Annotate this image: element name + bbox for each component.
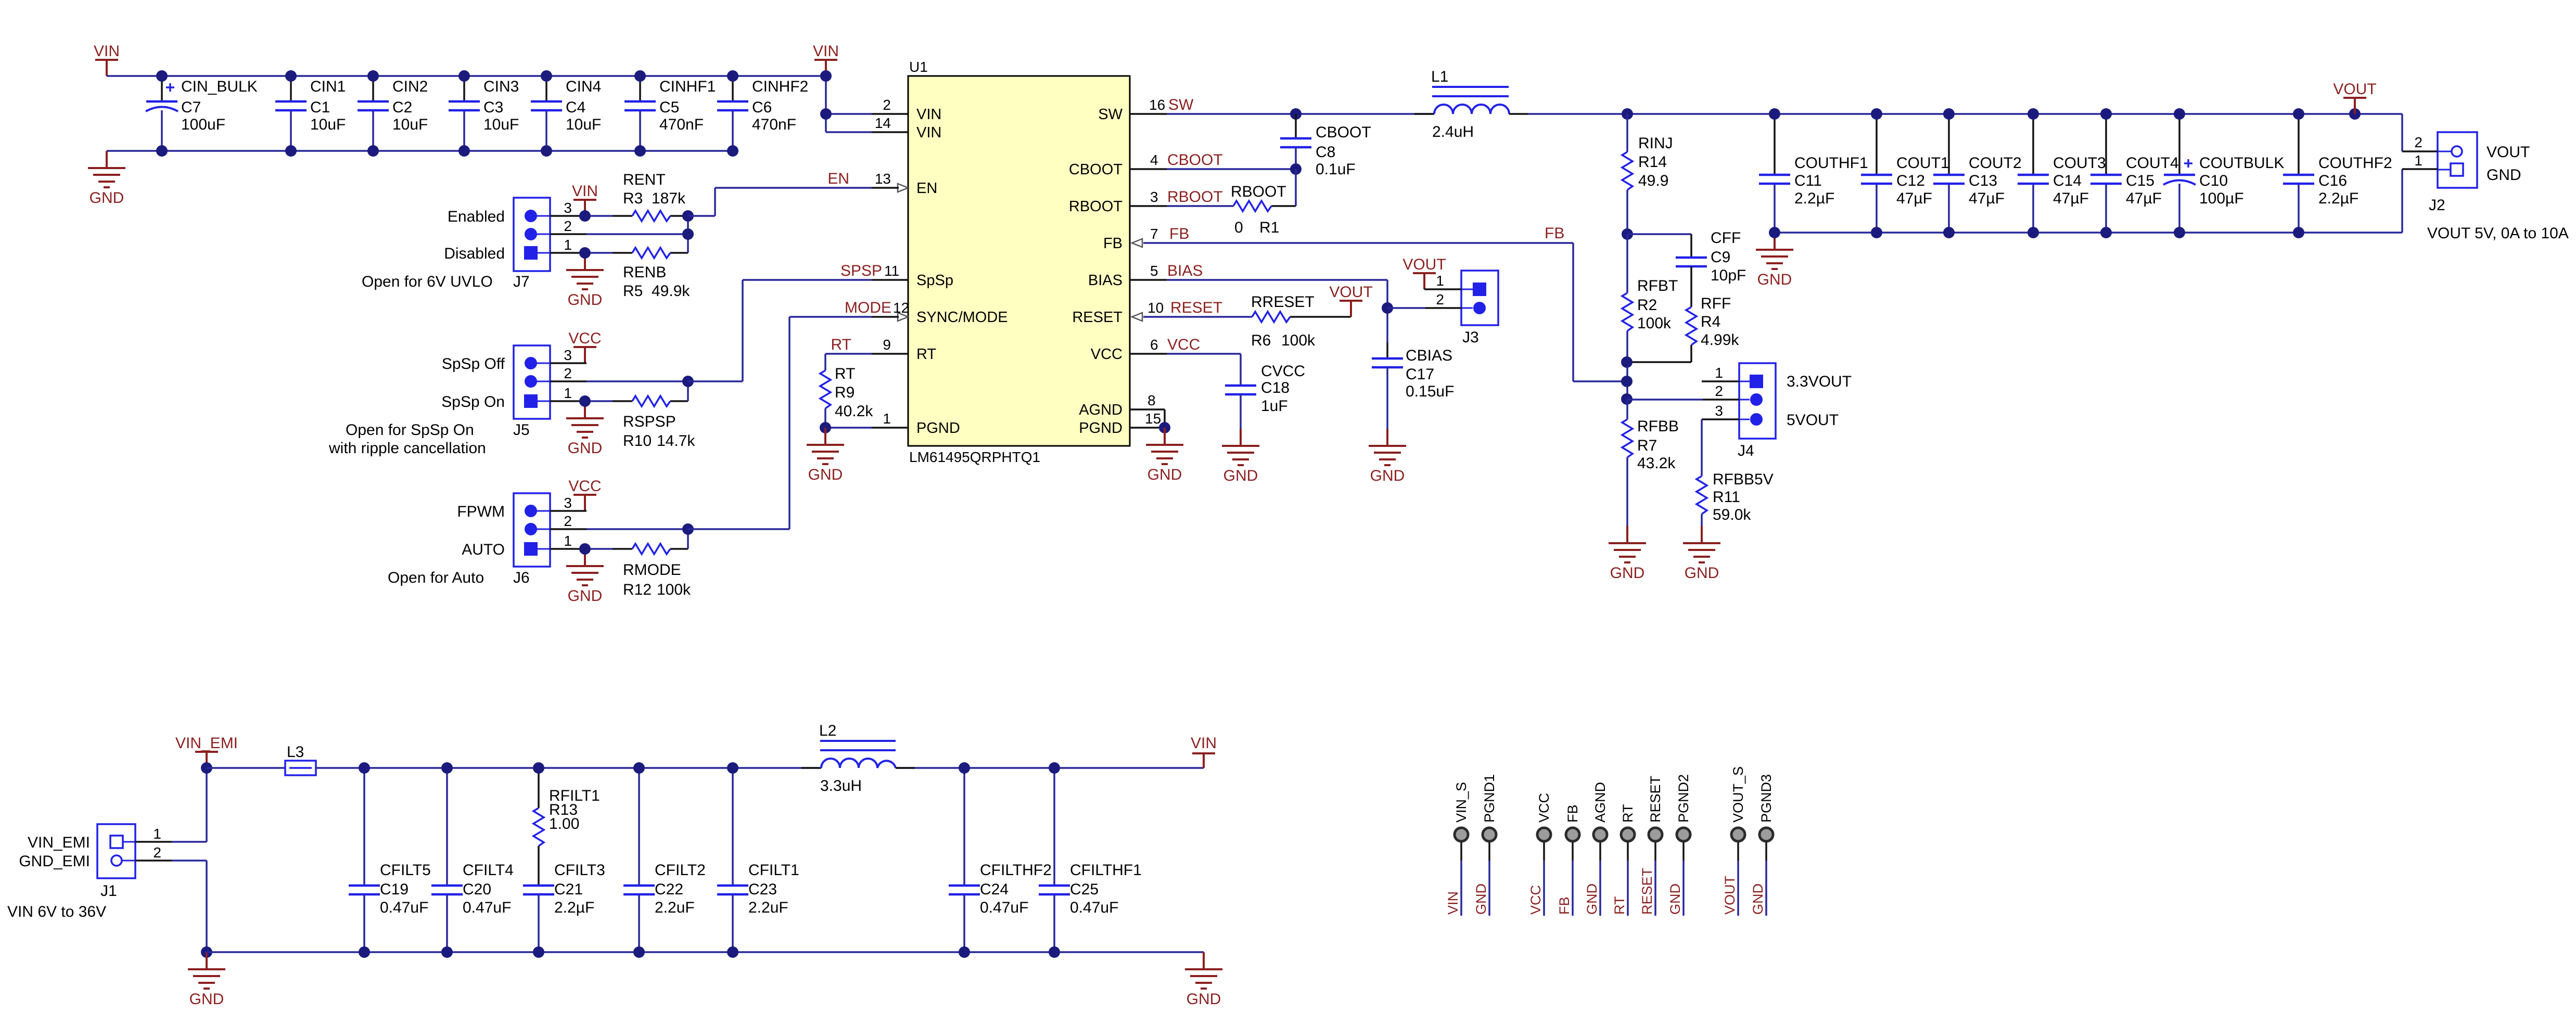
power flag VIN (EMI filter output) xyxy=(1191,735,1217,768)
svg-text:VIN 6V to 36V: VIN 6V to 36V xyxy=(7,903,106,920)
svg-text:C12: C12 xyxy=(1896,172,1925,189)
svg-text:VIN: VIN xyxy=(813,43,839,60)
svg-text:C7: C7 xyxy=(181,99,201,116)
test point VOUT_S (net VOUT) xyxy=(1722,766,1746,916)
connector J1 (VIN input) xyxy=(7,824,161,920)
ground GND (J6 pin1) xyxy=(566,549,604,585)
svg-text:RBOOT: RBOOT xyxy=(1167,188,1223,206)
svg-text:AGND: AGND xyxy=(1079,402,1123,418)
svg-text:VIN_EMI: VIN_EMI xyxy=(175,735,238,752)
wire: EN net from divider to U1 pin 13 xyxy=(682,188,899,253)
svg-text:1: 1 xyxy=(883,411,891,427)
svg-text:C21: C21 xyxy=(554,881,583,898)
svg-text:3: 3 xyxy=(564,347,572,363)
svg-text:8: 8 xyxy=(1147,392,1156,408)
capacitor C4 CIN4 10uF xyxy=(531,70,601,157)
svg-text:COUT2: COUT2 xyxy=(1969,155,2022,172)
svg-text:VCC: VCC xyxy=(1091,346,1123,363)
connector J7 (Enabled/Disabled jumper) xyxy=(362,198,572,290)
test point VIN_S (net VIN) xyxy=(1445,782,1469,916)
svg-text:GND: GND xyxy=(568,440,603,457)
svg-text:EN: EN xyxy=(916,180,937,197)
svg-text:R4: R4 xyxy=(1701,313,1720,330)
svg-text:GND: GND xyxy=(1370,467,1405,484)
capacitor C9 CFF 10pF xyxy=(1627,229,1746,307)
svg-text:3: 3 xyxy=(1150,189,1158,205)
svg-text:CBIAS: CBIAS xyxy=(1406,347,1452,364)
svg-text:2.2µF: 2.2µF xyxy=(2318,190,2358,207)
U1 pin 7 FB input arrow xyxy=(1132,239,1142,247)
svg-text:C23: C23 xyxy=(748,881,777,898)
svg-text:C24: C24 xyxy=(980,881,1009,898)
power flag VCC (J6 pin3) xyxy=(573,495,596,511)
wire: MODE net to U1 pin 12 xyxy=(682,317,899,549)
svg-text:VCC: VCC xyxy=(1536,793,1552,823)
svg-text:1: 1 xyxy=(1436,273,1444,289)
capacitor C19 CFILT5 0.47uF xyxy=(349,762,431,958)
svg-text:L2: L2 xyxy=(819,722,836,739)
svg-text:CIN3: CIN3 xyxy=(483,78,519,95)
svg-text:GND: GND xyxy=(90,189,124,207)
svg-text:RMODE: RMODE xyxy=(623,561,681,579)
ground GND (RFBB) xyxy=(1609,526,1646,562)
svg-text:VIN: VIN xyxy=(94,43,120,60)
power flag VIN_EMI xyxy=(195,752,218,768)
capacitor C11 COUTHF1 2.2µF xyxy=(1759,108,1868,238)
svg-text:C14: C14 xyxy=(2053,172,2082,189)
svg-text:VIN: VIN xyxy=(572,183,598,200)
svg-text:RT: RT xyxy=(916,346,936,363)
svg-text:RBOOT: RBOOT xyxy=(1231,183,1286,200)
svg-text:AUTO: AUTO xyxy=(462,541,505,558)
svg-text:470nF: 470nF xyxy=(659,116,704,133)
svg-text:2.2uF: 2.2uF xyxy=(748,899,788,916)
svg-text:R14: R14 xyxy=(1638,153,1667,171)
wire: VIN top rail of input cap bank xyxy=(107,75,826,77)
svg-text:RT: RT xyxy=(1612,896,1627,915)
wire: BIAS net from U1 pin 5 xyxy=(1130,280,1393,342)
svg-text:MODE: MODE xyxy=(845,299,891,316)
svg-text:CFILT4: CFILT4 xyxy=(463,862,514,879)
svg-text:1: 1 xyxy=(2414,152,2422,169)
svg-text:C25: C25 xyxy=(1070,881,1099,898)
svg-text:3.3uH: 3.3uH xyxy=(820,777,862,794)
svg-text:PGND1: PGND1 xyxy=(1482,774,1497,823)
svg-text:R1: R1 xyxy=(1259,219,1279,236)
svg-text:14.7k: 14.7k xyxy=(657,432,695,450)
svg-text:COUTHF2: COUTHF2 xyxy=(2318,155,2392,172)
inductor L1 2.4uH xyxy=(1414,68,1528,140)
svg-text:J4: J4 xyxy=(1738,442,1754,459)
svg-text:VCC: VCC xyxy=(568,330,601,347)
svg-text:VOUT: VOUT xyxy=(2486,144,2530,161)
capacitor C10 COUTBULK 100µF xyxy=(2163,108,2284,238)
svg-text:470nF: 470nF xyxy=(752,116,796,133)
svg-text:C15: C15 xyxy=(2126,172,2154,189)
svg-text:47µF: 47µF xyxy=(1896,190,1932,207)
svg-text:R11: R11 xyxy=(1713,489,1740,506)
svg-text:R10: R10 xyxy=(623,432,652,450)
svg-text:5VOUT: 5VOUT xyxy=(1787,412,1839,429)
svg-text:10uF: 10uF xyxy=(310,116,346,133)
wire: VCC net from U1 pin 6 xyxy=(1130,354,1241,386)
svg-text:CIN4: CIN4 xyxy=(566,78,601,95)
power flag VIN (at U1 input) xyxy=(814,60,837,76)
wire: FB net from U1 pin 7 to feedback divider xyxy=(1143,243,1627,381)
svg-text:CIN2: CIN2 xyxy=(392,78,428,95)
svg-text:J7: J7 xyxy=(513,273,530,290)
wire: RBOOT net from U1 pin 3 xyxy=(1130,169,1296,206)
svg-text:100µF: 100µF xyxy=(2199,190,2244,207)
svg-text:43.2k: 43.2k xyxy=(1637,455,1676,472)
svg-text:R2: R2 xyxy=(1637,297,1657,314)
ground GND (RT/PGND) xyxy=(807,428,844,464)
svg-text:49.9: 49.9 xyxy=(1638,172,1668,189)
svg-text:4: 4 xyxy=(1150,152,1158,168)
svg-text:1: 1 xyxy=(564,533,572,549)
capacitor C18 CVCC 1uF xyxy=(1225,363,1305,429)
svg-text:R6: R6 xyxy=(1251,332,1271,349)
svg-text:2: 2 xyxy=(564,365,572,381)
svg-text:COUT1: COUT1 xyxy=(1896,155,1949,172)
svg-text:12: 12 xyxy=(893,300,909,316)
capacitor C22 CFILT2 2.2uF xyxy=(623,762,706,958)
ground GND (output bank) xyxy=(1756,233,1793,269)
svg-text:L1: L1 xyxy=(1431,68,1448,85)
svg-text:CBOOT: CBOOT xyxy=(1167,151,1223,169)
svg-text:J5: J5 xyxy=(513,421,530,439)
svg-text:RFBB: RFBB xyxy=(1637,418,1679,435)
svg-text:VIN_S: VIN_S xyxy=(1453,782,1469,823)
capacitor C1 CIN1 10uF xyxy=(275,70,346,157)
power flag VIN (input bank, top-left) xyxy=(95,60,118,76)
svg-text:SW: SW xyxy=(1098,106,1123,123)
svg-text:40.2k: 40.2k xyxy=(835,403,873,420)
svg-text:PGND: PGND xyxy=(1079,420,1123,437)
svg-text:2: 2 xyxy=(883,97,891,113)
svg-text:AGND: AGND xyxy=(1592,782,1608,823)
test point PGND2 (net GND) xyxy=(1667,774,1691,916)
node: FB divider top junction xyxy=(1622,228,1633,240)
svg-text:GND: GND xyxy=(1223,467,1258,484)
svg-text:GND: GND xyxy=(1584,883,1600,915)
capacitor C14 COUT3 47µF xyxy=(2018,108,2106,238)
svg-text:C20: C20 xyxy=(463,881,491,898)
svg-text:C13: C13 xyxy=(1969,172,1997,189)
test point RT (net RT) xyxy=(1612,804,1636,916)
svg-text:6: 6 xyxy=(1150,337,1158,353)
svg-text:VOUT: VOUT xyxy=(1329,284,1372,301)
svg-text:2: 2 xyxy=(153,844,161,861)
wire: GND bottom rail of input cap bank xyxy=(107,150,733,152)
svg-text:EN: EN xyxy=(827,170,849,187)
svg-text:100k: 100k xyxy=(657,581,691,598)
resistor R7 RFBB 43.2k xyxy=(1622,399,1679,526)
svg-text:C8: C8 xyxy=(1316,144,1335,161)
svg-text:3: 3 xyxy=(564,200,572,216)
svg-text:10uF: 10uF xyxy=(483,116,519,133)
ground GND (J7 pin1) xyxy=(566,253,604,289)
svg-text:Open for 6V UVLO: Open for 6V UVLO xyxy=(362,273,493,290)
wire: J5 pin3 to VCC xyxy=(550,362,586,364)
svg-text:SPSP: SPSP xyxy=(840,262,882,279)
svg-text:VOUT: VOUT xyxy=(1402,256,1446,273)
ground GND (RFBB5V) xyxy=(1683,526,1720,562)
test point RESET (net RESET) xyxy=(1639,776,1663,916)
svg-text:RESET: RESET xyxy=(1648,776,1663,823)
svg-text:VIN: VIN xyxy=(1445,891,1461,915)
wire: CBOOT net from U1 pin 4 xyxy=(1130,163,1302,175)
svg-text:0.47uF: 0.47uF xyxy=(980,899,1028,916)
svg-text:VOUT_S: VOUT_S xyxy=(1730,766,1746,823)
svg-text:J6: J6 xyxy=(513,569,530,586)
svg-text:CFF: CFF xyxy=(1711,229,1741,247)
svg-text:CIN_BULK: CIN_BULK xyxy=(181,78,258,95)
svg-text:1: 1 xyxy=(1715,365,1723,381)
svg-text:0.47uF: 0.47uF xyxy=(1070,899,1118,916)
svg-text:C19: C19 xyxy=(380,881,409,898)
svg-text:GND: GND xyxy=(1473,883,1489,915)
svg-text:5: 5 xyxy=(1150,263,1158,279)
wire: J5 pin2 to SpSp node xyxy=(550,380,688,382)
wire: J6 pin1 to GND and RMODE xyxy=(550,543,688,555)
capacitor C24 CFILTHF2 0.47uF xyxy=(949,762,1052,958)
svg-text:RRESET: RRESET xyxy=(1251,293,1315,311)
svg-text:VCC: VCC xyxy=(1528,885,1544,915)
svg-text:49.9k: 49.9k xyxy=(652,283,690,300)
svg-text:C16: C16 xyxy=(2318,172,2347,189)
svg-text:RFBT: RFBT xyxy=(1637,277,1678,294)
svg-text:GND: GND xyxy=(2486,166,2521,184)
capacitor C5 CINHF1 470nF xyxy=(624,70,716,157)
connector J6 (FPWM/AUTO jumper) xyxy=(388,493,572,586)
resistor R11 RFBB5V 59.0k xyxy=(1697,419,1774,526)
wire: J7 pin1 to GND and RENB xyxy=(550,247,688,259)
svg-text:GND: GND xyxy=(1750,883,1766,915)
svg-text:FB: FB xyxy=(1169,225,1189,242)
svg-text:Disabled: Disabled xyxy=(444,245,505,262)
svg-text:GND: GND xyxy=(808,466,843,483)
svg-text:RT: RT xyxy=(1620,804,1636,823)
svg-text:0.15uF: 0.15uF xyxy=(1406,383,1454,400)
svg-text:C3: C3 xyxy=(483,99,503,116)
svg-text:LM61495QRPHTQ1: LM61495QRPHTQ1 xyxy=(909,449,1040,465)
wire: J6 pin2 to MODE node xyxy=(550,528,688,530)
svg-text:GND_EMI: GND_EMI xyxy=(19,853,90,870)
wire: SPSP net to U1 pin 11 xyxy=(682,280,908,401)
svg-text:100k: 100k xyxy=(1281,332,1316,349)
test point PGND3 (net GND) xyxy=(1750,774,1774,916)
svg-text:RENB: RENB xyxy=(623,264,666,281)
svg-text:Open for Auto: Open for Auto xyxy=(388,569,484,586)
svg-text:C11: C11 xyxy=(1794,172,1822,189)
svg-text:C2: C2 xyxy=(392,99,412,116)
svg-text:R5: R5 xyxy=(623,283,643,300)
power flag VOUT (J3 pin1) xyxy=(1413,273,1436,289)
resistor R3 RENT 187k xyxy=(623,171,686,221)
ferrite bead L3 xyxy=(207,743,316,775)
svg-text:0.1uF: 0.1uF xyxy=(1316,161,1356,178)
svg-text:GND: GND xyxy=(1757,271,1792,288)
svg-text:CIN1: CIN1 xyxy=(310,78,346,95)
svg-text:10pF: 10pF xyxy=(1711,267,1746,284)
ground GND (EMI filter left) xyxy=(188,952,225,989)
wire: GND bottom rail of output bank xyxy=(1775,169,2402,233)
svg-text:COUTHF1: COUTHF1 xyxy=(1794,155,1868,172)
svg-text:FB: FB xyxy=(1557,896,1572,915)
svg-text:C9: C9 xyxy=(1711,249,1730,266)
svg-text:C6: C6 xyxy=(752,99,772,116)
capacitor C20 CFILT4 0.47uF xyxy=(431,762,514,958)
svg-text:1: 1 xyxy=(564,385,572,401)
svg-text:CFILTHF1: CFILTHF1 xyxy=(1070,862,1142,879)
svg-text:COUT4: COUT4 xyxy=(2126,155,2179,172)
svg-text:RSPSP: RSPSP xyxy=(623,413,676,430)
svg-text:RENT: RENT xyxy=(623,171,666,188)
ground GND (input bank) xyxy=(88,151,125,187)
svg-text:FPWM: FPWM xyxy=(457,503,505,520)
wire: R9 to GND and U1 PGND pin 1 xyxy=(820,408,908,433)
svg-text:GND: GND xyxy=(1667,883,1683,915)
svg-text:47µF: 47µF xyxy=(2053,190,2089,207)
connector J5 (SpSp jumper) xyxy=(328,345,572,457)
resistor R4 RFF 4.99k xyxy=(1627,295,1739,362)
svg-text:GND: GND xyxy=(568,587,603,605)
svg-text:59.0k: 59.0k xyxy=(1713,506,1751,523)
svg-text:VIN: VIN xyxy=(916,106,941,123)
svg-text:2: 2 xyxy=(1436,291,1444,307)
svg-text:1.00: 1.00 xyxy=(549,815,579,832)
svg-text:GND: GND xyxy=(1147,466,1182,483)
svg-text:C4: C4 xyxy=(566,99,585,116)
svg-text:RESET: RESET xyxy=(1639,868,1655,915)
capacitor C3 CIN3 10uF xyxy=(449,70,519,157)
svg-text:13: 13 xyxy=(875,171,891,187)
svg-text:VOUT: VOUT xyxy=(1722,876,1738,915)
svg-text:VCC: VCC xyxy=(1167,336,1200,353)
svg-text:RFBB5V: RFBB5V xyxy=(1713,471,1774,488)
svg-text:47µF: 47µF xyxy=(1969,190,2005,207)
svg-text:VIN_EMI: VIN_EMI xyxy=(28,834,90,851)
svg-text:CINHF2: CINHF2 xyxy=(752,78,808,95)
svg-text:2.4uH: 2.4uH xyxy=(1432,123,1474,140)
U1 pin 10 RESET arrow xyxy=(1132,313,1142,321)
svg-text:CVCC: CVCC xyxy=(1261,363,1305,380)
svg-text:0.47uF: 0.47uF xyxy=(463,899,511,916)
svg-text:Open for SpSp On: Open for SpSp On xyxy=(346,421,474,439)
power flag VOUT (output rail) xyxy=(2333,81,2376,120)
capacitor C6 CINHF2 470nF xyxy=(717,70,808,157)
test point FB (net FB) xyxy=(1557,804,1580,916)
wire: VIN drop to U1 pins 2 and 14 xyxy=(820,70,908,132)
svg-text:U1: U1 xyxy=(909,59,928,75)
svg-text:RESET: RESET xyxy=(1170,299,1222,316)
svg-text:CFILT3: CFILT3 xyxy=(554,862,605,879)
test point AGND (net GND) xyxy=(1584,782,1608,916)
svg-text:47µF: 47µF xyxy=(2126,190,2162,207)
svg-text:FB: FB xyxy=(1103,235,1123,252)
svg-text:FB: FB xyxy=(1565,804,1580,823)
U1 pin 13 EN input arrow xyxy=(898,184,908,192)
capacitor C12 COUT1 47µF xyxy=(1861,108,1949,238)
svg-text:C18: C18 xyxy=(1261,379,1290,396)
svg-text:SpSp: SpSp xyxy=(916,272,953,289)
capacitor C8 CBOOT 0.1uF xyxy=(1280,114,1371,178)
svg-text:2: 2 xyxy=(564,513,572,529)
svg-text:SpSp On: SpSp On xyxy=(441,393,505,411)
svg-text:2: 2 xyxy=(2414,134,2422,150)
test point PGND1 (net GND) xyxy=(1473,774,1497,916)
U1 left pin names xyxy=(916,106,1008,437)
svg-text:J2: J2 xyxy=(2429,197,2445,214)
svg-text:C10: C10 xyxy=(2199,172,2228,189)
svg-text:VOUT: VOUT xyxy=(2333,81,2376,98)
svg-text:C5: C5 xyxy=(659,99,679,116)
svg-text:CBOOT: CBOOT xyxy=(1069,161,1123,178)
wire: VOUT top rail (L1 to J2) xyxy=(1528,114,2402,151)
U1 pin 12 SYNC/MODE input arrow xyxy=(898,313,908,321)
wire: RESET net from U1 pin 10 xyxy=(1143,316,1351,318)
capacitor C15 COUT4 47µF xyxy=(2090,108,2179,238)
capacitor C17 CBIAS 0.15uF xyxy=(1372,342,1454,429)
svg-text:CBOOT: CBOOT xyxy=(1316,124,1371,141)
svg-text:100uF: 100uF xyxy=(181,116,225,133)
test point VCC (net VCC) xyxy=(1528,793,1552,916)
svg-text:PGND2: PGND2 xyxy=(1676,774,1691,823)
ground GND (CBIAS) xyxy=(1369,429,1406,465)
svg-text:J1: J1 xyxy=(100,882,117,900)
svg-text:15: 15 xyxy=(1145,411,1161,427)
svg-text:SW: SW xyxy=(1168,96,1194,113)
svg-text:CINHF1: CINHF1 xyxy=(659,78,716,95)
svg-text:RINJ: RINJ xyxy=(1638,135,1673,152)
capacitor C23 CFILT1 2.2uF xyxy=(717,762,799,958)
svg-text:R9: R9 xyxy=(835,384,855,401)
svg-text:RESET: RESET xyxy=(1072,309,1123,326)
svg-text:2.2µF: 2.2µF xyxy=(1794,190,1834,207)
wire: J7 pin2 to EN node xyxy=(550,233,688,235)
resistor R2 RFBT 100k xyxy=(1622,234,1678,399)
svg-text:R12: R12 xyxy=(623,581,652,598)
svg-text:CFILTHF2: CFILTHF2 xyxy=(980,862,1052,879)
svg-text:GND: GND xyxy=(568,291,603,309)
U1 right pin names xyxy=(1069,106,1123,437)
svg-text:Enabled: Enabled xyxy=(448,208,505,225)
svg-text:RT: RT xyxy=(835,365,855,382)
svg-text:10: 10 xyxy=(1147,300,1164,316)
svg-text:VCC: VCC xyxy=(568,478,601,495)
svg-text:2: 2 xyxy=(564,218,572,234)
resistor R1 RBOOT 0 ohm xyxy=(1231,183,1286,236)
node: FB junctions xyxy=(1621,356,1633,405)
resistor R12 RMODE 100k xyxy=(623,544,691,598)
capacitor C16 COUTHF2 2.2µF xyxy=(2283,108,2392,238)
resistor R14 RINJ 49.9 xyxy=(1622,108,1673,234)
svg-text:16: 16 xyxy=(1149,97,1165,113)
svg-text:CFILT1: CFILT1 xyxy=(748,862,799,879)
svg-text:1: 1 xyxy=(564,237,572,253)
svg-text:L3: L3 xyxy=(287,743,304,761)
capacitor C21 CFILT3 2.2µF xyxy=(523,762,605,958)
resistor R13 RFILT1 1.00 xyxy=(533,768,600,846)
svg-text:10uF: 10uF xyxy=(392,116,428,133)
wire: J1 pin1 to VIN_EMI rail xyxy=(135,762,212,842)
wire: J6 pin3 to VCC xyxy=(550,510,586,512)
svg-text:GND: GND xyxy=(189,991,224,1008)
power flag VCC (J5 pin3) xyxy=(573,347,596,363)
svg-text:with ripple cancellation: with ripple cancellation xyxy=(328,440,486,457)
capacitor C13 COUT2 47µF xyxy=(1933,108,2022,238)
